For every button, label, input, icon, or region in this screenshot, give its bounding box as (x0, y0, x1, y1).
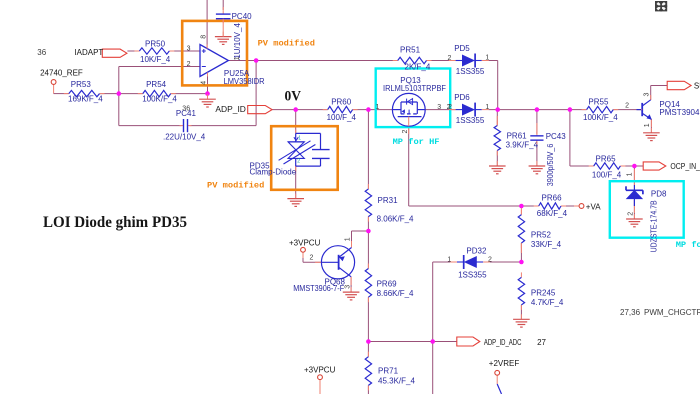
svg-text:0V: 0V (285, 89, 302, 105)
svg-text:169K/F_4: 169K/F_4 (68, 95, 103, 104)
port ADP_ID (248, 106, 272, 114)
wire 24740_REF stub (53, 84, 55, 93)
svg-text:.1U/10V_4: .1U/10V_4 (233, 23, 242, 61)
wire PR69 to PR71 through ADC node (367, 297, 369, 357)
transistor PQ14 (641, 103, 643, 116)
svg-text:4.7K/F_4: 4.7K/F_4 (531, 298, 564, 307)
svg-text:PMST3904: PMST3904 (659, 108, 700, 117)
wire PR54 to ground node (171, 93, 208, 95)
svg-text:1: 1 (627, 172, 634, 176)
viewer expand icon (655, 1, 667, 11)
wire +3VPCU bottom stub (319, 380, 321, 394)
wire PR31 to PR69 through collector node (367, 217, 369, 269)
wire ADP_ID_ADC branch (368, 341, 456, 343)
svg-text:33K/F_4: 33K/F_4 (531, 240, 562, 249)
svg-text:45.3K/F_4: 45.3K/F_4 (378, 376, 415, 385)
capacitor PC43 (536, 132, 538, 136)
power +3VPCU at PQ68 (301, 247, 306, 252)
svg-text:PC40: PC40 (232, 12, 253, 21)
diode PD6 (449, 109, 456, 111)
junction (366, 229, 371, 234)
svg-text:2: 2 (187, 61, 191, 68)
svg-text:1: 1 (376, 104, 380, 111)
junction (519, 204, 524, 209)
cyan highlight box around PD8 (610, 181, 684, 238)
ground under PC40 (222, 32, 224, 37)
resistor PR51 (393, 60, 398, 62)
junction (117, 91, 122, 96)
svg-text:+3VPCU: +3VPCU (289, 239, 321, 248)
wire PR55 to PQ14 base (613, 109, 641, 111)
svg-text:36: 36 (182, 105, 190, 112)
svg-text:3: 3 (437, 104, 441, 111)
svg-text:100K/F_4: 100K/F_4 (583, 113, 618, 122)
junction (293, 107, 298, 112)
wire PD8 top lead (633, 166, 635, 185)
diode PD32 (450, 261, 457, 263)
svg-text:2: 2 (448, 55, 452, 62)
svg-text:PR60: PR60 (331, 97, 352, 106)
svg-text:100K/F_4: 100K/F_4 (142, 95, 177, 104)
resistor PR52 (520, 210, 522, 215)
resistor PR60 (323, 109, 328, 111)
svg-text:PR245: PR245 (531, 288, 556, 297)
clamp diode PD35 (296, 132, 321, 134)
wire PQ13 gate down and right to PR66 node (408, 126, 410, 206)
wire PD8 anode to ground (633, 200, 635, 219)
wire PC43 branch (536, 110, 538, 134)
svg-text:3900p/50V_6: 3900p/50V_6 (546, 143, 555, 186)
junction (366, 107, 371, 112)
capacitor PC41 (180, 125, 184, 127)
wire PC40 top lead from page top (222, 0, 224, 10)
svg-text:PR53: PR53 (71, 80, 92, 89)
svg-text:1: 1 (644, 123, 651, 127)
mosfet PQ13 (392, 93, 425, 126)
svg-text:PD6: PD6 (454, 93, 470, 102)
power +2VREF (495, 370, 500, 375)
junction (495, 107, 500, 112)
resistor PR53 (64, 93, 69, 95)
svg-text:24740_REF: 24740_REF (40, 68, 83, 77)
resistor PR71 (367, 352, 369, 357)
svg-text:100/F_4: 100/F_4 (327, 113, 357, 122)
svg-text:+3VPCU: +3VPCU (304, 366, 336, 375)
svg-text:PWM_CHGCTRL: PWM_CHGCTRL (644, 308, 700, 317)
resistor PR54 (138, 93, 143, 95)
svg-text:SU: SU (694, 81, 700, 90)
svg-text:MP for HF: MP for HF (393, 137, 440, 147)
ground under PD35 (295, 194, 297, 199)
svg-text:8.06K/F_4: 8.06K/F_4 (377, 214, 414, 223)
svg-text:1: 1 (485, 55, 489, 62)
wire feedback bottom through PC41 (119, 125, 182, 127)
svg-text:PV modified: PV modified (258, 38, 315, 48)
svg-text:MP fo: MP fo (676, 240, 700, 250)
port ADP_ID_ADC (457, 337, 480, 346)
resistor PR66 (534, 205, 539, 207)
svg-text:ADP_ID_ADC: ADP_ID_ADC (484, 338, 522, 347)
ground under PR245 (520, 314, 522, 319)
power 24740_REF (51, 80, 56, 85)
resistor PR55 (582, 109, 587, 111)
resistor PR245 (520, 272, 522, 277)
port IADAPT (102, 49, 127, 57)
ground under PD8 (633, 214, 635, 219)
svg-text:1SS355: 1SS355 (456, 116, 485, 125)
wire PR61 branch (496, 110, 498, 126)
svg-text:2: 2 (402, 130, 409, 134)
wire PQ14 emitter to ground (650, 119, 652, 133)
junction (366, 339, 371, 344)
svg-text:1: 1 (447, 256, 451, 263)
svg-text:1: 1 (298, 135, 301, 141)
port OCP_IN (643, 162, 666, 170)
junction (205, 91, 210, 96)
orange highlight box around PD35 (271, 126, 338, 190)
junction (632, 164, 637, 169)
svg-text:2K/F_4: 2K/F_4 (405, 62, 431, 71)
svg-text:10K/F_4: 10K/F_4 (140, 55, 171, 64)
svg-text:1: 1 (345, 237, 352, 241)
capacitor PC40 (222, 10, 224, 14)
svg-text:4: 4 (201, 81, 208, 85)
junction (568, 107, 573, 112)
svg-text:PD5: PD5 (454, 44, 470, 53)
svg-text:2: 2 (625, 103, 629, 110)
svg-text:LMV358IDR: LMV358IDR (224, 77, 265, 86)
resistor PR31 (367, 184, 369, 189)
svg-text:PR31: PR31 (378, 196, 399, 205)
svg-text:1SS355: 1SS355 (456, 67, 485, 76)
svg-text:PR66: PR66 (542, 193, 563, 202)
wire PD32 cathode to PR52/PR245 node (490, 261, 522, 263)
wire PR60 to PQ13 drain (353, 109, 393, 111)
svg-text:+2VREF: +2VREF (489, 359, 520, 368)
junction (430, 339, 435, 344)
wire OCP branch vertical (569, 110, 571, 166)
ground at PQ68 emitter (350, 287, 352, 292)
svg-text:ADP_ID: ADP_ID (215, 105, 246, 114)
resistor PR69 (367, 264, 369, 269)
wire IADAPT to PR50 to op-amp pin 3 (127, 50, 139, 52)
svg-text:2: 2 (310, 254, 314, 261)
transistor PQ68 (321, 246, 354, 279)
svg-text:PC43: PC43 (546, 132, 567, 141)
wire PQ68 collector (352, 230, 369, 232)
svg-text:UDZSTE-174.7B: UDZSTE-174.7B (649, 200, 658, 252)
svg-text:27,36: 27,36 (620, 308, 641, 317)
op-amp PU25A (200, 45, 228, 77)
zener diode PD8 (626, 190, 642, 199)
svg-text:2: 2 (488, 256, 492, 263)
gate bar of PQ13 (398, 116, 422, 118)
svg-text:PR71: PR71 (378, 367, 399, 376)
wire PQ68 base from +3VPCU (302, 252, 304, 262)
svg-text:MMST3906-7-F: MMST3906-7-F (293, 284, 344, 293)
ground at PQ14 emitter (650, 128, 652, 133)
svg-text:.22U/10V_4: .22U/10V_4 (163, 133, 206, 142)
wire PR53 to PR54 node (100, 93, 143, 95)
svg-text:+VA: +VA (586, 202, 601, 211)
svg-text:PD32: PD32 (466, 247, 487, 256)
wire PR65 to OCP_IN connector and PD8 (620, 165, 643, 167)
wire PQ14 collector to connector (650, 86, 652, 101)
clamp diode diagonal strokes (279, 141, 311, 161)
wire ADP_ID to 0V node to PR60 (272, 109, 328, 111)
wire PD35 bottom to ground (295, 166, 297, 199)
wire inverting node vertical (118, 67, 120, 126)
power +VA (579, 204, 584, 209)
wire PQ68 emitter to ground (350, 277, 352, 292)
wire PR52 column from PR66 node (520, 206, 522, 215)
wire feedback vertical from output (255, 61, 257, 126)
svg-text:2: 2 (628, 212, 635, 216)
svg-text:1: 1 (234, 56, 241, 60)
svg-text:IADAPT: IADAPT (74, 48, 103, 57)
svg-text:OCP_IN_: OCP_IN_ (670, 162, 700, 171)
svg-text:36: 36 (37, 48, 46, 57)
svg-text:PV modified: PV modified (207, 180, 264, 190)
svg-text:PR69: PR69 (377, 279, 398, 288)
svg-text:PR61: PR61 (507, 131, 528, 140)
wire PD5 cathode down to main bus (489, 60, 498, 62)
wire PD32 column down page (432, 262, 434, 394)
svg-text:3: 3 (644, 93, 651, 97)
svg-text:68K/F_4: 68K/F_4 (537, 209, 568, 218)
svg-text:8: 8 (200, 35, 207, 39)
svg-text:3.9K/F_4: 3.9K/F_4 (506, 140, 539, 149)
diode PD5 (449, 60, 456, 62)
port at PQ14 collector (667, 81, 691, 89)
svg-text:100/F_4: 100/F_4 (592, 170, 622, 179)
svg-text:3: 3 (345, 285, 352, 289)
wire PQ13 source to PD6 (425, 109, 455, 111)
resistor PR61 (496, 121, 498, 126)
junction (519, 260, 524, 265)
svg-text:PR52: PR52 (531, 231, 552, 240)
svg-text:27: 27 (537, 338, 546, 347)
svg-text:PR65: PR65 (596, 154, 617, 163)
wire OCP row to PR65 (570, 165, 594, 167)
wire op-amp output to PR51 and PD5 (228, 60, 256, 62)
cyan highlight box around PQ13 (376, 69, 451, 128)
svg-text:PD8: PD8 (651, 190, 667, 199)
svg-text:2: 2 (447, 104, 451, 111)
wire PR66 to +VA circle (561, 205, 579, 207)
orange highlight box around PU25A (182, 21, 247, 86)
ground under PC43 (536, 161, 538, 166)
wire inverting input pin 2 (119, 66, 200, 68)
junction (254, 58, 259, 63)
svg-text:PR55: PR55 (588, 97, 609, 106)
wire main resistor column from bus (367, 110, 369, 189)
ground under PR61 (496, 161, 498, 166)
wire +2VREF stub (496, 375, 498, 384)
wire PR245 to ground (520, 305, 522, 319)
svg-text:PR54: PR54 (146, 80, 167, 89)
wire PR71 to page bottom (367, 385, 369, 394)
svg-text:PR50: PR50 (145, 40, 166, 49)
wire 0V node down into PD35 (295, 110, 297, 134)
wire V+ rail to op-amp pin 8 (206, 0, 208, 49)
svg-text:LOI Diode ghim PD35: LOI Diode ghim PD35 (43, 214, 187, 231)
wire below +2VREF (497, 384, 501, 394)
wire op-amp pin 4 to ground (207, 73, 209, 100)
svg-text:3: 3 (187, 45, 191, 52)
svg-text:Clamp-Diode: Clamp-Diode (250, 168, 297, 177)
svg-text:1SS355: 1SS355 (458, 271, 487, 280)
svg-text:IRLML5103TRPBF: IRLML5103TRPBF (383, 84, 446, 93)
svg-text:8.66K/F_4: 8.66K/F_4 (377, 289, 414, 298)
junction (535, 107, 540, 112)
resistor PR65 (589, 165, 594, 167)
svg-text:2: 2 (297, 158, 300, 164)
resistor PR50 (134, 50, 139, 52)
wire PD6 cathode along main bus to PR55 (489, 109, 587, 111)
svg-text:1: 1 (485, 104, 489, 111)
wire PD32 anode to column (433, 261, 451, 263)
svg-text:PR51: PR51 (400, 45, 421, 54)
ground at op-amp pin 4 (207, 94, 209, 99)
power +3VPCU bottom (318, 375, 323, 380)
